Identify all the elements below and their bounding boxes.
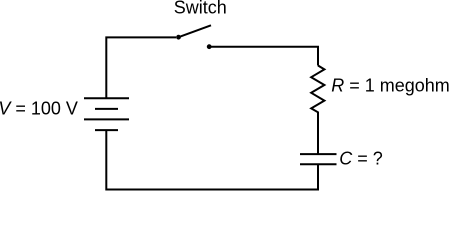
svg-text:R = 1 megohm: R = 1 megohm [331,76,450,96]
svg-text:C = ?: C = ? [339,149,383,169]
svg-text:Switch: Switch [174,0,227,18]
svg-text:V = 100 V: V = 100 V [0,99,78,119]
